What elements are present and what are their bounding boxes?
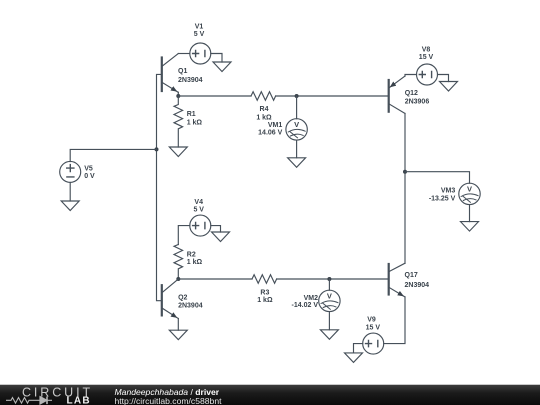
svg-text:V1: V1 bbox=[195, 24, 204, 31]
wire V9 to ground bbox=[354, 344, 363, 353]
svg-text:V: V bbox=[467, 185, 472, 194]
svg-text:R4: R4 bbox=[260, 106, 269, 113]
footer bar bbox=[0, 384, 540, 405]
svg-text:2N3906: 2N3906 bbox=[405, 99, 430, 106]
svg-text:14.06 V: 14.06 V bbox=[258, 130, 282, 137]
svg-text:0 V: 0 V bbox=[84, 173, 95, 180]
voltage source V1 5V bbox=[190, 24, 211, 64]
svg-text:15 V: 15 V bbox=[366, 324, 381, 331]
wire VM1 to ground bbox=[296, 140, 298, 158]
transistor Q2 2N3904 bbox=[162, 279, 203, 330]
svg-text:2N3904: 2N3904 bbox=[178, 77, 203, 84]
ground below VM1 bbox=[288, 158, 306, 168]
svg-text:2N3904: 2N3904 bbox=[405, 282, 430, 289]
voltmeter VM3 -13.25V bbox=[429, 183, 480, 204]
svg-text:15 V: 15 V bbox=[419, 54, 434, 61]
wire V5 to base bus bbox=[70, 149, 156, 161]
svg-text:LAB: LAB bbox=[67, 396, 91, 405]
node C VM1 tap bbox=[295, 94, 299, 98]
wire R3 to Q17 base bbox=[277, 278, 389, 280]
voltage source V9 15V bbox=[363, 316, 384, 354]
ground below Q2 emitter bbox=[169, 330, 187, 340]
ground below V9 bbox=[345, 353, 363, 363]
wire VM3 tap to VM3 bbox=[405, 172, 470, 184]
svg-text:1 kΩ: 1 kΩ bbox=[187, 259, 203, 266]
wire V4 to ground bbox=[211, 226, 221, 232]
footer title text bbox=[115, 388, 222, 405]
wire Q1 collector to V1 bbox=[178, 53, 190, 55]
svg-text:Q1: Q1 bbox=[178, 68, 187, 75]
svg-text:1 kΩ: 1 kΩ bbox=[187, 120, 203, 127]
voltmeter VM1 14.06V bbox=[258, 119, 307, 140]
svg-text:VM1: VM1 bbox=[268, 122, 283, 129]
wire R4 to Q12 base bbox=[276, 95, 389, 97]
ground below V8 bbox=[440, 82, 458, 92]
svg-text:R3: R3 bbox=[260, 289, 269, 296]
voltmeter VM2 -14.02V bbox=[292, 290, 341, 311]
node A V5 tap bbox=[155, 147, 159, 151]
wire VM3 to ground bbox=[469, 205, 471, 222]
svg-text:-13.25 V: -13.25 V bbox=[429, 195, 456, 202]
wire V8 to ground bbox=[438, 75, 449, 82]
node D VM3 tap bbox=[403, 170, 407, 174]
svg-text:-14.02 V: -14.02 V bbox=[292, 302, 319, 309]
ground below VM2 bbox=[320, 330, 338, 340]
svg-text:V5: V5 bbox=[84, 166, 93, 173]
svg-text:5 V: 5 V bbox=[193, 206, 204, 213]
node E R2 bottom junction bbox=[176, 277, 180, 281]
svg-text:2N3904: 2N3904 bbox=[178, 302, 203, 309]
wire VM2 tap down bbox=[328, 279, 330, 290]
svg-text:R1: R1 bbox=[187, 111, 196, 118]
voltage source V4 5V bbox=[190, 199, 211, 236]
node F VM2 tap bbox=[327, 277, 331, 281]
svg-text:V: V bbox=[294, 120, 299, 129]
svg-text:V: V bbox=[327, 292, 332, 301]
ground below V4 bbox=[212, 232, 230, 242]
svg-text:1 kΩ: 1 kΩ bbox=[257, 297, 273, 304]
svg-text:1 kΩ: 1 kΩ bbox=[256, 115, 272, 122]
svg-text:Q2: Q2 bbox=[178, 295, 187, 302]
ground below VM3 bbox=[461, 222, 479, 232]
svg-text:V9: V9 bbox=[367, 316, 376, 323]
wire V1 to ground bbox=[211, 54, 222, 63]
svg-text:Q12: Q12 bbox=[405, 90, 418, 97]
resistor R1 1k bbox=[174, 96, 202, 147]
transistor Q1 2N3904 bbox=[162, 54, 203, 97]
wire R2 junction to R3 bbox=[178, 278, 252, 280]
transistor Q17 2N3904 bbox=[389, 263, 429, 297]
resistor R4 1k bbox=[251, 92, 276, 122]
svg-text:V4: V4 bbox=[194, 199, 203, 206]
transistor Q12 2N3906 bbox=[389, 76, 430, 113]
wire Q17 emitter to V9 bbox=[384, 297, 405, 344]
wire V4 to R2 bbox=[178, 226, 190, 245]
svg-text:V8: V8 bbox=[422, 47, 431, 54]
wire Q12 emitter to V8 bbox=[405, 75, 417, 77]
ground below V5 bbox=[61, 201, 79, 211]
wire base bus Q1 base to Q2 base bbox=[157, 74, 162, 300]
wire Q12 collector down to Q17 collector bbox=[404, 113, 406, 263]
voltage source V5 0V bbox=[60, 161, 95, 182]
node B Q1 emitter bbox=[176, 94, 180, 98]
resistor R2 1k bbox=[174, 245, 203, 280]
wire VM1 tap down bbox=[296, 96, 298, 119]
svg-text:R2: R2 bbox=[187, 252, 196, 259]
ground below V1 bbox=[213, 62, 231, 72]
voltage source V8 15V bbox=[417, 47, 438, 85]
svg-text:5 V: 5 V bbox=[194, 31, 205, 38]
wire V5 to ground bbox=[69, 182, 71, 201]
svg-text:VM3: VM3 bbox=[441, 188, 456, 195]
ground below R1 bbox=[169, 147, 187, 157]
svg-text:Q17: Q17 bbox=[405, 272, 418, 279]
wire Q1 emitter to R4 bbox=[178, 95, 251, 97]
CircuitLab logo bbox=[0, 385, 110, 405]
wire VM2 to ground bbox=[328, 312, 330, 330]
resistor R3 1k bbox=[252, 275, 277, 304]
